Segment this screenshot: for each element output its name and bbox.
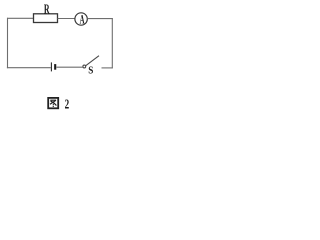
svg-text:A: A (80, 14, 85, 28)
svg-text:2: 2 (65, 97, 70, 112)
svg-text:R: R (44, 3, 50, 18)
wire switch to battery (57, 66, 83, 68)
wire left vertical (7, 18, 9, 68)
resistor R (34, 14, 58, 23)
wire right vertical (111, 18, 113, 68)
battery positive plate (long thin) (50, 62, 52, 71)
caption glyph 图 (48, 98, 58, 108)
wire bottom-right stub (102, 67, 113, 69)
wire top-left horizontal (7, 17, 34, 19)
wire battery to bottom-left (7, 67, 51, 69)
wire resistor to ammeter (58, 18, 75, 20)
switch S pivot (83, 65, 86, 68)
svg-text:S: S (88, 65, 94, 77)
switch S blade (85, 56, 99, 66)
battery negative plate (short thick) (54, 64, 56, 70)
wire ammeter to top-right corner (87, 18, 113, 20)
ammeter A (75, 13, 87, 25)
